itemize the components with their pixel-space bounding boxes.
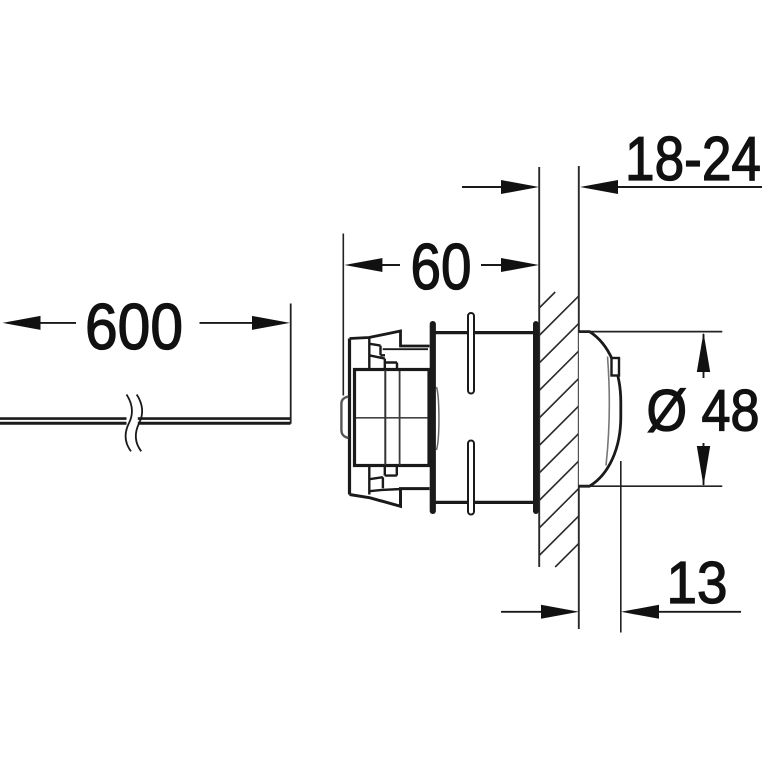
dimension 600 line right segment — [200, 322, 254, 324]
dimension 60 extension line (body rear) — [342, 234, 344, 396]
dimension 13 line left segment — [501, 611, 542, 613]
dimension 13 arrow onto button front — [621, 605, 659, 619]
valve body inner vertical 1 — [384, 370, 386, 465]
dimension 18-24 arrow onto wall right face — [580, 180, 618, 194]
dimension 600 line left segment — [40, 322, 76, 324]
wall left face line — [538, 167, 540, 567]
dimension D48 top extension line — [579, 331, 723, 333]
dimension D48 line bottom segment — [703, 443, 705, 485]
dimension 600 arrow left — [3, 316, 41, 330]
svg-text:18-24: 18-24 — [625, 125, 761, 194]
cone spring curve — [437, 387, 439, 450]
cylinder bottom edge — [436, 501, 534, 504]
dome clip notch — [612, 358, 620, 376]
body: rear housing outline — [350, 331, 430, 506]
second top connector line — [383, 348, 428, 350]
dimension D48 bottom extension line — [579, 485, 723, 487]
dimension 18-24 line right segment — [618, 186, 762, 188]
dimension 18-24 line left segment — [462, 186, 502, 188]
dimension D48 line top segment — [703, 334, 705, 378]
cylinder top edge — [436, 331, 534, 334]
svg-text:Ø 48: Ø 48 — [647, 379, 760, 444]
dome inner arc — [606, 357, 609, 466]
dimension D48 arrow down — [697, 446, 710, 486]
hose (pneumatic tube) top line — [0, 419, 291, 424]
dimension 60 arrow left — [344, 258, 382, 272]
wall hatching — [539, 292, 579, 567]
dimension 60 arrow right — [501, 258, 539, 272]
valve body centre line — [356, 417, 428, 419]
svg-text:13: 13 — [667, 550, 728, 616]
dimension 18-24 arrow onto wall left face — [501, 180, 539, 194]
screw top — [468, 313, 474, 394]
hose break squiggle left — [126, 395, 132, 452]
svg-text:600: 600 — [85, 290, 183, 363]
valve body inner vertical 2 — [399, 371, 401, 465]
front flange bar — [430, 321, 436, 514]
svg-text:60: 60 — [411, 230, 472, 303]
push button dome — [579, 332, 621, 487]
wall flange bar — [533, 321, 539, 514]
dimension D48 arrow up — [697, 333, 710, 373]
valve body rectangle — [355, 370, 430, 466]
dimension 60 line left segment — [382, 264, 400, 266]
hose bottom line — [0, 422, 291, 425]
dimension 600 arrow right — [252, 316, 290, 330]
wedge clamp details top — [369, 338, 397, 368]
extension line button front (13 dim) — [620, 461, 622, 633]
screw bottom — [468, 441, 474, 515]
wedge clamp details bottom — [369, 467, 401, 495]
hose break squiggle right — [136, 395, 142, 452]
extension line for 600 at hose end — [290, 304, 292, 424]
dimension 13 line right segment — [659, 611, 741, 613]
dimension 13 arrow onto wall right face — [541, 605, 579, 619]
dimension 60 line right segment — [481, 264, 502, 266]
cable entry bump on rear — [341, 397, 348, 439]
wall right face line — [578, 166, 580, 629]
